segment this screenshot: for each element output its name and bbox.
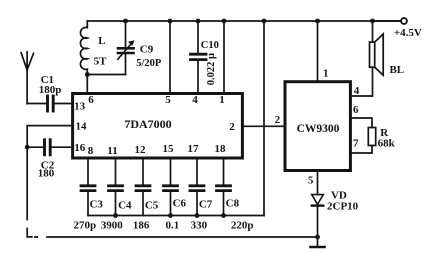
wire pin8 drop bbox=[87, 158, 89, 184]
wire speaker drop bottom bbox=[372, 67, 374, 96]
svg-text:5T: 5T bbox=[94, 56, 108, 68]
svg-text:+4.5V: +4.5V bbox=[394, 27, 422, 39]
node C8 rail junction bbox=[221, 213, 226, 218]
svg-text:6: 6 bbox=[353, 104, 359, 116]
capacitor C2 180 bbox=[43, 140, 46, 155]
svg-text:8: 8 bbox=[88, 145, 94, 157]
wire top supply bus bbox=[87, 20, 401, 22]
wire C1 to pin13 bbox=[55, 103, 73, 105]
svg-text:1: 1 bbox=[219, 94, 225, 106]
antenna bbox=[21, 52, 33, 104]
wire ground rail bbox=[47, 236, 318, 238]
wire pin14 to left rail bbox=[27, 126, 72, 220]
capacitor C3 270p bbox=[81, 186, 95, 216]
wire CW9300 pin1 drop bbox=[317, 21, 319, 82]
node CW9300 pin1 junction bbox=[315, 19, 320, 24]
wire terminal stub bbox=[373, 20, 402, 22]
capacitor C7 330 bbox=[190, 186, 204, 216]
svg-text:C3: C3 bbox=[89, 198, 103, 210]
wire ground rail dash-dot bbox=[27, 229, 37, 238]
svg-text:7: 7 bbox=[353, 137, 359, 149]
svg-text:2CP10: 2CP10 bbox=[327, 201, 359, 213]
node C4 rail junction bbox=[113, 213, 118, 218]
capacitor C8 220p bbox=[217, 186, 231, 216]
node C9 top junction bbox=[123, 19, 128, 24]
node C10 top junction bbox=[196, 19, 201, 24]
wire long drop bus to caps rail bbox=[263, 21, 265, 216]
wire pin15 drop bbox=[170, 158, 172, 184]
svg-text:7DA7000: 7DA7000 bbox=[124, 117, 171, 131]
capacitor C5 186 bbox=[136, 186, 150, 216]
svg-text:13: 13 bbox=[74, 100, 86, 112]
node long-drop junction bbox=[262, 19, 267, 24]
diode VD 2CP10 bbox=[312, 195, 324, 205]
wire pin2 link to CW9300 bbox=[242, 125, 285, 127]
wire pin11 drop bbox=[115, 158, 117, 184]
capacitor C4 3900 bbox=[109, 186, 123, 216]
svg-text:186: 186 bbox=[133, 219, 150, 231]
svg-text:5/20P: 5/20P bbox=[136, 58, 162, 69]
node C6 rail junction bbox=[168, 213, 173, 218]
node pin5 top junction bbox=[168, 19, 173, 24]
svg-text:68k: 68k bbox=[378, 138, 396, 150]
op-amp U2 CW9300 box bbox=[285, 82, 350, 171]
op-amp U1 7DA7000 box bbox=[73, 94, 243, 159]
svg-text:4: 4 bbox=[192, 94, 198, 106]
wire CW9300 pin4 to speaker bbox=[350, 95, 372, 97]
svg-text:C8: C8 bbox=[226, 198, 240, 210]
svg-text:3900: 3900 bbox=[101, 219, 124, 231]
wire pin6 drop bbox=[86, 75, 88, 94]
svg-text:1: 1 bbox=[323, 68, 329, 80]
svg-text:16: 16 bbox=[74, 142, 86, 154]
svg-text:180: 180 bbox=[38, 168, 55, 180]
svg-text:C10: C10 bbox=[201, 40, 219, 51]
wire C2 to pin16 bbox=[52, 146, 73, 148]
wire left rail to C2 bbox=[27, 146, 43, 148]
svg-text:CW9300: CW9300 bbox=[297, 123, 340, 135]
wire coil bottom to C9 bottom bbox=[87, 74, 125, 76]
svg-text:BL: BL bbox=[389, 64, 404, 76]
svg-text:15: 15 bbox=[163, 143, 175, 155]
svg-text:5: 5 bbox=[308, 174, 314, 186]
node ground junction bbox=[315, 235, 320, 240]
wire CW9300 pin5 drop bbox=[317, 171, 319, 195]
capacitor C6 0.1 bbox=[164, 186, 178, 216]
svg-text:17: 17 bbox=[188, 143, 200, 155]
svg-text:12: 12 bbox=[135, 144, 147, 156]
wire pin12 drop bbox=[142, 158, 144, 184]
node coil bottom junction bbox=[85, 72, 90, 77]
svg-text:14: 14 bbox=[76, 121, 88, 133]
svg-text:C4: C4 bbox=[118, 200, 132, 212]
svg-text:0.022 μ: 0.022 μ bbox=[206, 53, 217, 85]
svg-text:C7: C7 bbox=[199, 199, 213, 211]
wire resistor to pin7 bbox=[350, 146, 372, 154]
svg-text:5: 5 bbox=[165, 94, 171, 106]
svg-text:0.1: 0.1 bbox=[166, 219, 180, 231]
capacitor C1 180p bbox=[46, 96, 49, 111]
svg-text:C6: C6 bbox=[173, 198, 187, 210]
node C7 rail junction bbox=[195, 213, 200, 218]
svg-text:330: 330 bbox=[191, 219, 208, 231]
svg-text:L: L bbox=[98, 35, 105, 47]
wire capacitor bottom rail bbox=[88, 215, 264, 217]
wire pin5 drop bbox=[169, 21, 171, 94]
wire pin18 drop bbox=[223, 158, 225, 184]
inductor L1 5T bbox=[80, 21, 87, 75]
wire pin1 drop bbox=[223, 21, 225, 94]
svg-text:220p: 220p bbox=[231, 219, 254, 231]
speaker BL bbox=[370, 42, 375, 67]
wire CW9300 pin6 to resistor bbox=[350, 118, 372, 128]
svg-text:4: 4 bbox=[354, 85, 360, 97]
terminal +4.5V bbox=[401, 18, 407, 24]
svg-text:2: 2 bbox=[229, 121, 235, 133]
capacitor C10 0.022u bbox=[197, 21, 199, 53]
resistor R 68k bbox=[368, 128, 375, 146]
svg-text:C5: C5 bbox=[145, 200, 159, 212]
svg-text:180p: 180p bbox=[39, 84, 62, 96]
svg-text:2: 2 bbox=[275, 114, 281, 126]
svg-text:C9: C9 bbox=[140, 44, 154, 56]
wire speaker drop top bbox=[372, 21, 374, 42]
node speaker junction bbox=[370, 19, 375, 24]
node C2 junction bbox=[25, 145, 30, 150]
svg-text:6: 6 bbox=[88, 94, 94, 106]
capacitor C9 (trimmer) bbox=[125, 21, 127, 47]
svg-text:11: 11 bbox=[107, 145, 117, 157]
node pin1 top junction bbox=[222, 19, 227, 24]
svg-text:18: 18 bbox=[215, 143, 227, 155]
wire antenna to C1 bbox=[27, 103, 46, 105]
svg-text:270p: 270p bbox=[73, 219, 96, 231]
ground bbox=[317, 237, 319, 247]
wire pin17 drop bbox=[196, 158, 198, 184]
